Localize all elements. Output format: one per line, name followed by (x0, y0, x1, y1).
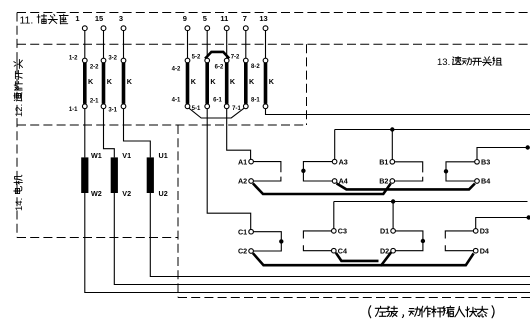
winding W (81, 157, 88, 193)
svg-text:K: K (191, 77, 197, 86)
terminal 5-1 (205, 104, 210, 109)
junction dot right end B3 bus (526, 145, 530, 149)
wire link D1-D2 (393, 231, 423, 251)
svg-text:1-1: 1-1 (69, 107, 78, 113)
terminal 7-2 (243, 58, 248, 63)
wire contact B2 to gap (392, 177, 422, 181)
switch bar K7 (244, 63, 248, 104)
wire pin5 to switch 5 (206, 28, 208, 60)
terminal 3-1 (121, 104, 126, 109)
wire bus A3-B1 (335, 129, 530, 131)
wire pin3 to switch 3 (123, 28, 125, 60)
switch bar K8 (264, 63, 268, 104)
plug pin 7 (243, 26, 248, 31)
wire contact D4 to gap (445, 245, 475, 251)
label box13 name 13. su-dong-kai-guan-zu (437, 56, 502, 68)
wire winding W2 output (85, 193, 530, 293)
contact D1 (391, 229, 396, 234)
wire contact C4 to gap (303, 245, 333, 251)
plug pin 5 (205, 26, 210, 31)
svg-text:9: 9 (183, 14, 187, 23)
svg-text:B3: B3 (481, 157, 490, 166)
svg-text:K: K (230, 77, 236, 86)
svg-text:V1: V1 (122, 151, 131, 160)
wire contact D3 to gap (445, 231, 475, 239)
junction dot C1-C2 (279, 239, 283, 243)
contact D4 (473, 248, 478, 253)
switch bar K5 (205, 63, 209, 104)
svg-text:A2: A2 (238, 177, 247, 186)
svg-text:5-2: 5-2 (192, 55, 201, 61)
svg-text:3-1: 3-1 (108, 107, 117, 113)
plug pin 3 (121, 26, 126, 31)
wire 6-1 to contact A1 (227, 106, 251, 161)
wire 8-1 to right bus (266, 106, 530, 114)
box 12 right dashed edge (306, 44, 308, 125)
svg-text:2-2: 2-2 (90, 64, 99, 70)
svg-text:K: K (127, 77, 133, 86)
contact B3 (475, 160, 480, 165)
svg-text:K: K (269, 77, 275, 86)
wire bus C3-D1 (334, 201, 528, 203)
switch bar K4 (186, 63, 190, 104)
box 12 bottom dashed edge (17, 124, 307, 126)
switch bar K2 (102, 63, 106, 104)
contact B4 (475, 179, 480, 184)
box 13 bottom dashed edge (178, 297, 530, 299)
svg-text:6-2: 6-2 (215, 64, 224, 70)
terminal 4-1 (185, 104, 190, 109)
svg-text:D1: D1 (380, 227, 389, 236)
blade A2-B2 (253, 183, 391, 194)
plug pin 9 (185, 26, 190, 31)
terminal 1-1 (82, 104, 87, 109)
svg-text:1: 1 (75, 14, 79, 23)
contact A2 (249, 179, 254, 184)
switch bar K6 (225, 63, 229, 104)
svg-text:K: K (210, 77, 216, 86)
svg-text:8-2: 8-2 (251, 64, 260, 70)
label box14 vertical 14. dian-ji (14, 175, 25, 211)
junction dot B3-B4 (444, 169, 448, 173)
terminal 5-2 (205, 58, 210, 63)
svg-text:5: 5 (203, 14, 207, 23)
svg-text:3-2: 3-2 (108, 56, 117, 62)
svg-text:13.: 13. (437, 57, 450, 68)
contact B1 (390, 160, 395, 165)
left dashed edge of boxes 11,12,14 (16, 13, 18, 238)
terminal 4-2 (185, 58, 190, 63)
label box12 vertical 12. tong-duan-kai-guan (14, 59, 25, 117)
junction dot A3-A4 (301, 169, 305, 173)
svg-text:12.: 12. (14, 104, 25, 117)
svg-text:A3: A3 (339, 157, 348, 166)
switch contact bars K1-K8 (81, 63, 530, 244)
wire pin1 to switch 1 (84, 28, 86, 60)
terminal 2-1 (101, 104, 106, 109)
terminal 2-2 (101, 58, 106, 63)
blade C4-D2 (336, 252, 391, 266)
contact C4 (332, 248, 337, 253)
winding U (147, 157, 154, 193)
contact C1 (249, 229, 254, 234)
junction dot right end D3 bus (527, 215, 530, 219)
terminal 6-1 (224, 104, 229, 109)
svg-text:1-2: 1-2 (69, 56, 78, 62)
svg-text:C4: C4 (338, 246, 347, 255)
terminal 7-1 (243, 104, 248, 109)
svg-text:3: 3 (119, 14, 123, 23)
wire 5-1 to contact C1 (207, 106, 251, 231)
svg-text:D4: D4 (480, 246, 489, 255)
svg-text:14.: 14. (14, 198, 25, 211)
svg-text:W1: W1 (91, 151, 102, 160)
svg-text:K: K (107, 77, 113, 86)
box 13 left dashed edge (177, 125, 179, 298)
svg-text:W2: W2 (91, 189, 102, 198)
wire contact C3 to gap (303, 231, 333, 239)
wire switch1 bottom to winding W1 (84, 106, 86, 157)
svg-text:D2: D2 (380, 246, 389, 255)
switch bar K1 (83, 63, 87, 104)
wire contact B1 to gap (392, 162, 422, 173)
svg-text:8-1: 8-1 (251, 98, 260, 104)
box 14 motor bottom dashed edge (17, 237, 178, 239)
wire pin15 to switch 2 (103, 28, 105, 60)
junction dot bus D1 (391, 199, 395, 203)
svg-text:5-1: 5-1 (192, 106, 201, 112)
svg-text:6-1: 6-1 (213, 98, 222, 104)
svg-text:C3: C3 (338, 227, 347, 236)
svg-text:A1: A1 (238, 157, 247, 166)
wire B3 riser to right (477, 148, 527, 162)
plug pin 11 (224, 26, 229, 31)
wire pin7 to switch 7 (245, 28, 247, 60)
bridge 5-2 to 6-2 (205, 52, 229, 59)
svg-text:D3: D3 (480, 227, 489, 236)
contact B2 (390, 179, 395, 184)
wire jumper 4-1 to 7-1 (188, 108, 245, 118)
plug pin 15 (101, 26, 106, 31)
wire pin11 to switch 6 (226, 28, 228, 60)
svg-text:K: K (249, 77, 255, 86)
svg-text:B4: B4 (481, 177, 490, 186)
terminal 8-2 (263, 58, 268, 63)
terminal 1-2 (82, 58, 87, 63)
switch bar K3 (122, 63, 126, 104)
wire riser bus to A3 (334, 130, 336, 162)
winding V (111, 157, 118, 193)
svg-text:V2: V2 (122, 189, 131, 198)
wire riser bus to B1 (391, 130, 393, 162)
svg-text:2-1: 2-1 (90, 99, 99, 105)
blade A4-B4 (337, 183, 475, 189)
wire pin13 to switch 8 (265, 28, 267, 60)
contact C3 (332, 229, 337, 234)
wire riser bus to D1 (392, 202, 394, 231)
blade C2-D4 (253, 253, 474, 265)
terminal 3-2 (121, 58, 126, 63)
wire switch3 bottom to winding U1 (124, 106, 151, 157)
svg-text:7-1: 7-1 (232, 106, 241, 112)
svg-text:C2: C2 (238, 247, 247, 256)
terminal 8-1 (263, 104, 268, 109)
svg-text:7: 7 (243, 14, 247, 23)
wire link B3-B4 (446, 162, 477, 181)
svg-text:A4: A4 (339, 177, 348, 186)
label box11 name cha-tou-zuo (37, 14, 68, 24)
wire D3 riser to right (476, 218, 528, 231)
svg-text:B1: B1 (379, 157, 388, 166)
plug pin 13 (263, 26, 268, 31)
contact A4 (332, 179, 337, 184)
wire pin9 to switch 4 (187, 28, 189, 60)
contact A3 (332, 159, 337, 164)
svg-text:7-2: 7-2 (231, 55, 240, 61)
svg-text:11: 11 (220, 14, 228, 23)
junction dot bus B1 (390, 127, 394, 131)
wire winding V2 output (114, 193, 530, 285)
svg-text:13: 13 (259, 14, 267, 23)
svg-text:15: 15 (95, 14, 103, 23)
contact A1 (249, 159, 254, 164)
svg-text:U2: U2 (159, 189, 168, 198)
svg-text:11.: 11. (20, 15, 34, 27)
contact C2 (249, 249, 254, 254)
wire winding U2 output (150, 193, 530, 277)
box 11 plug-socket dashed border top (17, 12, 530, 14)
contact D3 (473, 229, 478, 234)
label bottom note (zuo-zhuang, dong-zuo-gan-suo-ru-zhuang-tai) (369, 306, 494, 318)
junction dot D1-D2 (421, 239, 425, 243)
terminal 6-2 (224, 58, 229, 63)
svg-text:C1: C1 (238, 227, 247, 236)
wire riser bus to C3 (333, 202, 335, 231)
plug pin 1 (82, 26, 87, 31)
wire contact A1 to gap (251, 162, 281, 173)
box 11 / 12 / 13 shared dashed boundary (17, 43, 530, 45)
wire link C1-C2 (251, 232, 281, 251)
svg-text:4-2: 4-2 (172, 67, 181, 73)
wire link A3-A4 (303, 162, 334, 181)
wire contact A2 to gap (251, 177, 281, 181)
contact D2 (391, 248, 396, 253)
svg-text:U1: U1 (159, 151, 168, 160)
svg-text:K: K (88, 77, 94, 86)
svg-text:B2: B2 (379, 177, 388, 186)
svg-text:4-1: 4-1 (172, 98, 181, 104)
wire switch2 bottom to winding V1 (104, 106, 115, 157)
